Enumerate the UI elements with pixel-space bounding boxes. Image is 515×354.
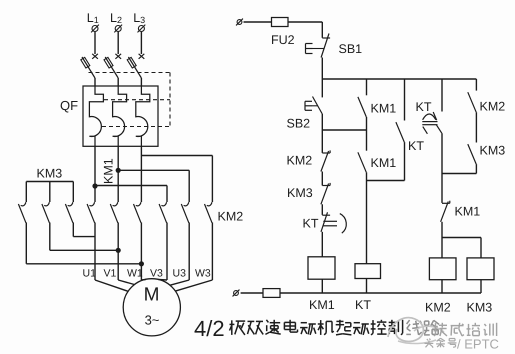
QF pole 2 blade [104, 57, 118, 86]
QF pole 1 trip elements [89, 86, 103, 146]
wire SB2 to KM2 NC [321, 114, 323, 153]
svg-text:SB2: SB2 [287, 117, 311, 131]
wire bus corner right [475, 79, 477, 91]
svg-text:KM3: KM3 [37, 167, 63, 181]
QF pole 2 trip elements [113, 86, 127, 146]
svg-text:4/2: 4/2 [194, 316, 225, 341]
contact KM3 NO (aux) [468, 144, 476, 164]
control supply terminal top [236, 19, 243, 26]
wire bus to SB2 [321, 79, 323, 97]
watermark / EPTC [457, 337, 499, 352]
wire KM1 NC to coil split [441, 222, 443, 238]
KM3 star-point bus [26, 181, 73, 183]
wire parallel junction [322, 129, 366, 131]
fuse FU2 [272, 18, 323, 27]
label KM2 (coil) [425, 301, 451, 315]
wire KT to KM1 coil [321, 232, 323, 257]
junction dot W1 [139, 261, 144, 266]
contact KM1 NO (seal-in lower) [358, 152, 366, 172]
wire KM3 contact3 to U1 line [73, 223, 95, 237]
svg-text:V3: V3 [150, 268, 163, 280]
wire to KM2 coil [441, 238, 443, 258]
svg-text:KM1: KM1 [371, 156, 397, 170]
svg-text:KT: KT [355, 298, 371, 312]
wire bus to KT delay [441, 79, 443, 112]
junction dot L2 branch [116, 168, 121, 173]
title text 4/2 [194, 316, 225, 341]
label KM1 (NC interlock) [455, 205, 481, 219]
label terminal U3 [173, 268, 187, 280]
svg-text:KT: KT [416, 100, 432, 114]
svg-text:3~: 3~ [145, 313, 160, 328]
svg-text:W1: W1 [127, 268, 143, 280]
label FU2 [271, 33, 295, 47]
title chinese faded chars xian-lu [406, 320, 439, 335]
watermark swirl [388, 318, 444, 344]
wire junction right branch [442, 173, 476, 175]
label SB1 [339, 42, 363, 56]
pushbutton SB2 (NO start) [305, 97, 322, 115]
label KM2 (aux) [480, 100, 506, 114]
label terminal U1 [83, 268, 97, 280]
label KM2 (main contacts) [218, 210, 244, 224]
label KT (delay NC) [303, 217, 319, 231]
wire motor lead 2 [118, 223, 134, 285]
coil KM1 [308, 257, 335, 279]
svg-text:KT: KT [303, 217, 319, 231]
label KM1 (coil) [309, 298, 335, 312]
wire to FU2 [244, 21, 272, 23]
wire KM3 contact1 to W1 line [26, 223, 141, 264]
contactor KM1 main contact 1 [87, 202, 95, 223]
svg-text:/ EPTC: / EPTC [457, 337, 499, 352]
svg-text:V1: V1 [104, 268, 117, 280]
contact KM2 NC (interlock) [321, 150, 330, 171]
svg-text:KM2: KM2 [480, 100, 506, 114]
QF dashed inner line lower [102, 126, 170, 128]
wire KM3 aux down [475, 164, 477, 173]
title chinese characters [230, 320, 403, 335]
node L1 supply terminal [87, 11, 99, 54]
QF pole 2 fixed contact X [115, 54, 121, 59]
label KM3 (aux) [480, 144, 506, 158]
wire motor lead 3 [141, 223, 146, 281]
contactor KM2 main contact 1 [159, 202, 167, 223]
QF pole 3 fixed contact X [139, 54, 145, 59]
junction dot L1 branch [92, 183, 97, 188]
circuit breaker QF body [83, 86, 158, 146]
svg-text:QF: QF [60, 98, 78, 113]
svg-text:KM3: KM3 [287, 186, 313, 200]
svg-text:W3: W3 [195, 268, 211, 280]
fuse bottom [263, 289, 280, 298]
wire KT coil to bottom bus [366, 279, 368, 294]
wire between KM2 KM3 aux [475, 112, 477, 142]
wire bus to KT NO [404, 79, 406, 121]
label KM3 (star contacts) [37, 167, 63, 181]
node L3 supply terminal [133, 11, 145, 54]
contact KT NO (delayed) [396, 122, 405, 147]
QF pole 3 trip elements [136, 86, 150, 146]
wire KM1 aux to KT coil [366, 172, 368, 263]
label KM1 (aux lower) [371, 156, 397, 170]
QF pole 3 blade [127, 57, 141, 86]
contact KM3 NC (interlock) [321, 183, 330, 204]
label KM2 (interlock) [287, 154, 313, 168]
wire bottom to fuse [241, 292, 263, 294]
label terminal V1 [104, 268, 117, 280]
contactor KM1 main contact 3 [134, 202, 142, 223]
wire motor lead 4 [158, 223, 167, 281]
svg-text:KM1: KM1 [455, 205, 481, 219]
svg-text:FU2: FU2 [271, 33, 295, 47]
contact KT delayed-closing with delay dome [422, 112, 442, 134]
QF dashed trip box right side [169, 73, 171, 127]
coil KT [355, 264, 381, 279]
contactor KM3 main contact 2 [42, 182, 50, 223]
svg-text:KT: KT [408, 139, 424, 153]
contactor KM3 main contact 3 [65, 182, 73, 223]
label terminal V3 [150, 268, 163, 280]
svg-text:KM2: KM2 [287, 154, 313, 168]
label SB2 [287, 117, 311, 131]
QF dashed inner line upper [104, 99, 170, 101]
QF pole 1 fixed contact X [92, 54, 98, 59]
label KM3 (coil) [467, 301, 493, 315]
label KT (NO contact) [408, 139, 424, 153]
svg-text:SB1: SB1 [339, 42, 363, 56]
wire to KM1 NC [441, 174, 443, 203]
wire to KM3 coil [480, 238, 482, 258]
wire KM1 coil to bottom bus [321, 279, 323, 293]
wire L1 below QF [94, 146, 96, 202]
wire KM3 contact2 to V1 line [50, 223, 118, 251]
label terminal W3 [195, 268, 211, 280]
wire junction to KT contact branch [367, 180, 405, 182]
wire bus to KM1 aux [366, 79, 368, 95]
wire KM1 aux mid [366, 117, 368, 151]
svg-text:KM2: KM2 [218, 210, 244, 224]
control bus top [322, 78, 476, 80]
svg-text:KM1: KM1 [102, 158, 116, 184]
svg-text:KM3: KM3 [480, 144, 506, 158]
wire KT delay down [441, 133, 443, 173]
contactor KM3 main contact 1 [18, 182, 26, 223]
wire KM3 coil to bottom bus [480, 280, 482, 293]
contact KM1 NC (interlock) [441, 201, 450, 222]
svg-text:U1: U1 [83, 268, 97, 280]
contactor KM2 main contact 3 [205, 202, 213, 223]
wire corner to SB1 [321, 22, 323, 38]
svg-text:KM3: KM3 [467, 301, 493, 315]
wire KM3 to KT [321, 204, 323, 215]
label KM3 (interlock) [287, 186, 313, 200]
contact KM1 NO (seal-in upper) [358, 97, 366, 117]
wire L2 branch to KM2 contact [118, 170, 189, 202]
watermark chars tou-tiao-hao [425, 338, 457, 347]
control bus bottom [280, 292, 481, 294]
coil KM3 [467, 258, 494, 280]
contactor KM2 main contact 2 [181, 202, 189, 223]
label KT (coil) [355, 298, 371, 312]
label KM1 (aux upper) [371, 102, 397, 116]
svg-text:KM1: KM1 [309, 298, 335, 312]
contact KT NC delayed-opening [321, 212, 346, 233]
QF pole 1 blade [81, 57, 95, 86]
wire motor lead 6 [175, 223, 212, 292]
motor M 3~ [123, 279, 180, 336]
label KM1 (rotated, main contacts) [102, 158, 116, 184]
wire coil split [442, 237, 481, 239]
svg-text:M: M [144, 285, 160, 306]
contactor KM1 main contact 2 [110, 202, 118, 223]
contact KM2 NO (speed select) [468, 92, 476, 112]
wire KT NO down [404, 148, 406, 181]
svg-text:KM2: KM2 [425, 301, 451, 315]
wire motor lead 1 [95, 223, 128, 292]
label KT (delay contact) [416, 100, 432, 114]
wire L3 branch to KM2 contact [141, 156, 212, 203]
wire KM2 coil to bottom bus [441, 280, 443, 293]
wire L2 below QF [117, 146, 119, 202]
label terminal W1 [127, 268, 143, 280]
wire L3 below QF [140, 146, 142, 202]
junction dot V1 [116, 248, 121, 253]
wire KM2 to KM3 [321, 172, 323, 186]
wire motor lead 5 [170, 223, 189, 286]
pushbutton SB1 (NC stop) [306, 34, 331, 80]
coil KM2 [429, 258, 456, 280]
svg-text:U3: U3 [173, 268, 187, 280]
label QF [60, 98, 78, 113]
svg-text:KM1: KM1 [371, 102, 397, 116]
watermark brand chars ji-cheng-pei-xun [434, 323, 497, 336]
control supply terminal bottom [233, 290, 240, 297]
node L2 supply terminal [110, 11, 122, 54]
QF mechanical linkage dashed line [89, 72, 171, 74]
wire L1 branch to KM2 contact [95, 186, 167, 203]
